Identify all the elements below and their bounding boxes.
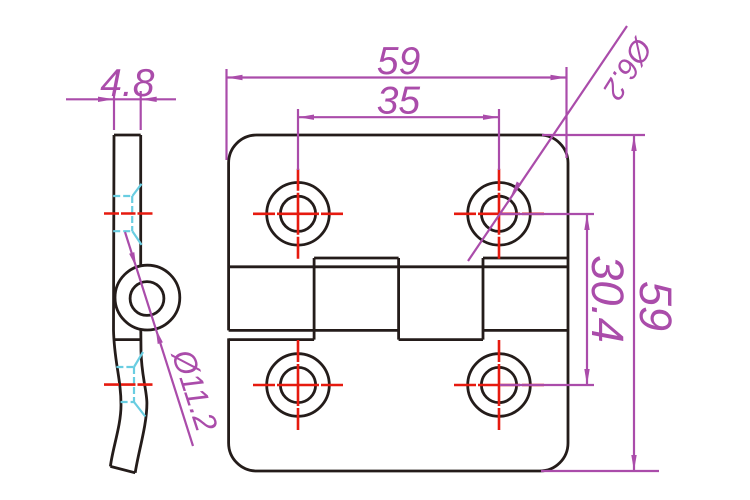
arrow 30.4 bottom bbox=[584, 369, 589, 385]
arrow diam 11.2 upper bbox=[129, 252, 136, 267]
hole bottom-left countersink bbox=[267, 354, 330, 417]
dim 35 line bbox=[298, 116, 499, 118]
hole bottom-right bore bbox=[481, 367, 516, 402]
dimension texts bbox=[100, 31, 681, 436]
plate outline with rounded corners (gap on left edge at barrel) bbox=[229, 135, 568, 471]
arrow 59 top left bbox=[227, 75, 243, 80]
knuckle divider 2 bbox=[397, 258, 400, 340]
svg-text:35: 35 bbox=[377, 80, 421, 123]
crosshair top-right vertical bbox=[498, 169, 501, 259]
side view left edge (continuous, S-curved at bottom) bbox=[110, 135, 121, 466]
cyan hidden hole lines, lower countersink bbox=[116, 352, 145, 417]
countersink cone lower bbox=[134, 402, 145, 417]
knuckle divider 3 bbox=[482, 258, 485, 340]
arrow 59 right bottom bbox=[631, 455, 636, 471]
crosshair top-left horizontal bbox=[253, 213, 343, 216]
arrow diam 11.2 lower bbox=[156, 329, 163, 344]
dim 59 right extension top bbox=[542, 134, 645, 136]
upper leaf strip top edge bbox=[114, 134, 141, 137]
dim 59 top line bbox=[227, 76, 567, 78]
lower leaf right edge from barrel down (S-curved) bbox=[135, 330, 147, 473]
dim 59 top extension left bbox=[225, 69, 227, 160]
dim 35 extension right bbox=[498, 109, 500, 170]
svg-text:4.8: 4.8 bbox=[100, 62, 155, 105]
dim 4.8 extension right bbox=[140, 91, 142, 130]
barrel top line bbox=[229, 265, 568, 268]
svg-text:59: 59 bbox=[377, 40, 420, 83]
hole cylinder top line bbox=[113, 195, 132, 197]
crosshair top-left vertical bbox=[297, 169, 300, 259]
countersink start vertical bbox=[133, 367, 135, 402]
barrel pin hole circle bbox=[130, 282, 164, 316]
dim 59 right extension bottom bbox=[541, 470, 659, 472]
centerline lower hole bbox=[104, 383, 153, 386]
hole bottom-right countersink bbox=[468, 354, 531, 417]
cyan hidden hole lines, upper countersink bbox=[113, 184, 141, 245]
knuckle tab top D bbox=[483, 257, 568, 260]
hole top-right bore bbox=[481, 196, 516, 231]
countersink start vertical bbox=[131, 196, 133, 231]
dim 30.4 extension bottom bbox=[500, 384, 594, 386]
dim 35 extension left bbox=[297, 109, 299, 170]
countersink cone lower bbox=[132, 231, 141, 245]
barrel bottom line right part bbox=[483, 329, 568, 332]
dim 30.4 line bbox=[586, 214, 588, 385]
dim 30.4 extension top bbox=[500, 213, 594, 215]
upper leaf strip right edge bbox=[139, 135, 142, 266]
dimension arrowheads bbox=[98, 75, 637, 471]
leader line diam 11.2 bbox=[125, 232, 193, 446]
hole top-right countersink bbox=[468, 183, 531, 246]
dim 4.8 line bbox=[66, 98, 176, 100]
knuckle tab bottom A bbox=[229, 338, 315, 341]
arrow 59 right top bbox=[631, 135, 636, 151]
leader line diam 6.2 bbox=[468, 26, 627, 261]
svg-text:30.4: 30.4 bbox=[582, 255, 633, 343]
red centerlines front view bbox=[253, 169, 544, 430]
arrow 35 left bbox=[298, 115, 314, 120]
crosshair bottom-left horizontal bbox=[253, 384, 343, 387]
hole bottom-left bore bbox=[280, 367, 315, 402]
hole top-left countersink bbox=[267, 183, 330, 246]
lower leaf bottom edge bbox=[110, 466, 135, 472]
dim 4.8 extension left bbox=[113, 91, 115, 130]
barrel outer circle bbox=[115, 265, 180, 330]
red centerlines side view bbox=[104, 214, 153, 385]
countersink cone upper bbox=[132, 184, 141, 196]
crosshair bottom-left vertical bbox=[297, 340, 300, 430]
knuckle divider 1 bbox=[313, 258, 316, 340]
hole top-left bore bbox=[280, 196, 315, 231]
arrow 30.4 top bbox=[584, 214, 589, 230]
dim 59 right line bbox=[633, 135, 635, 471]
arrow 4.8 left bbox=[98, 97, 114, 102]
knuckle tab top B bbox=[314, 257, 399, 260]
hole cylinder top line bbox=[116, 366, 134, 368]
svg-text:59: 59 bbox=[630, 281, 681, 331]
arrow 4.8 right bbox=[141, 97, 157, 102]
countersink cone upper bbox=[134, 352, 143, 367]
dim 59 top extension right bbox=[565, 67, 567, 158]
arrow 35 right bbox=[483, 115, 499, 120]
crosshair top-right horizontal bbox=[454, 213, 544, 216]
knuckle tab bottom C bbox=[399, 338, 483, 341]
hole cylinder bottom line bbox=[121, 401, 134, 403]
arrow diam 6.2 bbox=[511, 182, 521, 197]
crosshair bottom-right horizontal bbox=[454, 384, 544, 387]
arrow 59 top right bbox=[551, 75, 567, 80]
barrel bottom line left part bbox=[229, 329, 399, 332]
crosshair bottom-right vertical bbox=[498, 340, 501, 430]
lower leaf top edge bbox=[113, 338, 140, 341]
hole cylinder bottom line bbox=[113, 230, 132, 232]
centerline upper hole bbox=[104, 212, 153, 215]
